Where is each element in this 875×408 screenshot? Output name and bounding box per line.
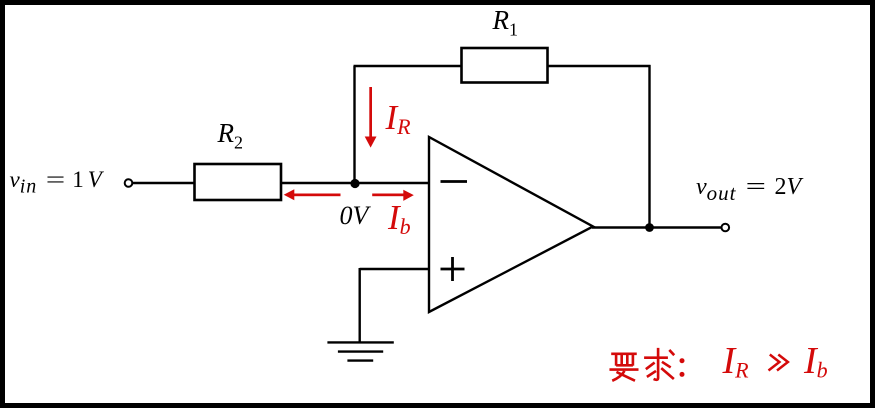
wire: feedback vertical (node up to top rail) [353, 66, 355, 184]
label R1 [493, 7, 519, 38]
node: inverting input junction [350, 179, 359, 188]
wire: input terminal to R2 [133, 182, 195, 184]
annotation: fullwidth colon [677, 357, 689, 379]
annotation label I_b [804, 342, 828, 382]
wire: R2 to op-amp inverting input [281, 182, 429, 184]
current arrow I_b (right) [372, 194, 404, 197]
annotation: 要求 (drawn glyphs) [607, 347, 677, 384]
char 求 [644, 348, 674, 380]
wire: top rail right of R1 [548, 65, 651, 67]
output terminal (open circle) [722, 224, 730, 232]
annotation label I_R [723, 342, 749, 382]
wire: top rail left of R1 [354, 65, 462, 67]
op-amp U1 triangle [429, 137, 593, 312]
input terminal (open circle) [125, 179, 133, 187]
wire: op-amp output to output terminal [592, 226, 722, 228]
label 0V (virtual ground node) [340, 203, 369, 229]
ground [327, 342, 393, 360]
char 要 [611, 350, 637, 358]
label I_b (bias current) [388, 200, 411, 238]
label R2 [218, 120, 244, 151]
op-amp inverting pin (minus) [441, 180, 468, 183]
node: output junction [645, 223, 654, 232]
annotation: much-greater-than sign [763, 353, 790, 372]
wire: vertical down to ground [359, 268, 361, 342]
wire: right vertical down to output [648, 65, 650, 228]
label I_R (feedback current) [386, 100, 411, 138]
op-amp non-inverting pin (plus) [441, 257, 465, 281]
label v_out = 2V [696, 175, 801, 204]
current arrow I_R (down) [369, 87, 372, 137]
resistor R1 [462, 48, 548, 83]
wire: op-amp plus input to ground drop [360, 268, 429, 270]
resistor R2 [195, 164, 282, 200]
current arrow into R2 (left) [294, 194, 341, 197]
label v_in = 1V [10, 168, 102, 197]
